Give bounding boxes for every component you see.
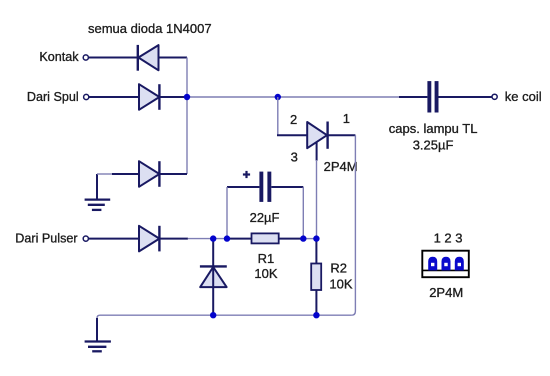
wire [159, 173, 187, 175]
connector pin 3 [455, 257, 464, 271]
capacitor C1 22uF [227, 172, 303, 202]
pin label 3 [291, 150, 298, 165]
svg-text:10K: 10K [329, 277, 352, 292]
wire: rail left corner down [97, 315, 100, 320]
svg-text:R1: R1 [258, 251, 275, 266]
label: Kontak [39, 50, 79, 64]
SCR U1 2P4M [307, 122, 327, 161]
wire [159, 96, 187, 98]
node junction dot [275, 94, 281, 100]
port terminal ke coil [492, 94, 497, 99]
capacitor C1 22uF polarity + [243, 171, 250, 178]
resistor R1 [227, 233, 303, 243]
node junction dot [224, 235, 230, 241]
label: Dari Pulser [15, 232, 77, 246]
diode D2 (pointing right) [139, 84, 159, 110]
label: R2 10K [329, 277, 352, 292]
wire [226, 187, 228, 239]
ground (bottom left) [85, 318, 111, 351]
svg-text:2P4M: 2P4M [324, 159, 358, 174]
wire [89, 57, 138, 59]
wire: cathode down to ground rail [351, 135, 355, 315]
pin label 2 [290, 112, 297, 127]
wire [159, 238, 188, 240]
label: R1 10K [254, 266, 277, 281]
port terminal Kontak [83, 55, 88, 60]
port terminal Dari Pulser [83, 236, 88, 241]
svg-text:ke coil: ke coil [505, 89, 542, 104]
resistor R2 [311, 239, 321, 316]
diode D5 (vertical, pointing up) [200, 239, 227, 316]
svg-text:22µF: 22µF [250, 210, 280, 225]
wire [89, 238, 139, 240]
port terminal Dari Spul [84, 94, 89, 99]
label: 22uF [250, 210, 280, 225]
capacitor C2 3.25uF [399, 81, 492, 112]
diode D4 (pointing right) [139, 226, 159, 252]
wire: vertical bus of diode outputs [186, 58, 188, 175]
svg-text:3.25µF: 3.25µF [413, 137, 454, 152]
connector pin 2 [442, 257, 451, 271]
node junction dot [184, 94, 190, 100]
node junction dot [313, 235, 319, 241]
wire: top rail to capacitor [187, 96, 399, 98]
svg-text:Kontak: Kontak [39, 50, 79, 64]
SCR anode drop wire [277, 97, 279, 135]
label: R2 [330, 261, 347, 276]
node junction dot [210, 312, 216, 318]
node junction dot [313, 312, 319, 318]
ground (middle left) [85, 174, 111, 210]
wire: SCR gate down [316, 160, 318, 239]
wire: SCR cathode to right [328, 134, 356, 136]
label: Dari Spul [27, 90, 79, 104]
connector package 2P4M (TO-220 outline) [422, 251, 469, 278]
svg-text:2: 2 [290, 112, 297, 127]
svg-text:2P4M: 2P4M [429, 285, 463, 300]
label: caps. lampu TL [389, 121, 478, 136]
wire [188, 238, 227, 240]
pin label 1 [343, 111, 350, 126]
connector pin 1 [428, 257, 437, 271]
wire [302, 187, 304, 239]
label: semua dioda 1N4007 [88, 21, 212, 36]
node junction dot [210, 235, 216, 241]
label: 3.25uF [413, 137, 454, 152]
svg-text:1 2 3: 1 2 3 [434, 230, 463, 245]
wire [112, 173, 139, 175]
svg-text:Dari Spul: Dari Spul [27, 90, 79, 104]
svg-text:3: 3 [291, 150, 298, 165]
wire [303, 238, 316, 240]
svg-text:1: 1 [343, 111, 350, 126]
wire [277, 134, 307, 136]
svg-text:10K: 10K [254, 266, 277, 281]
svg-text:semua dioda 1N4007: semua dioda 1N4007 [88, 21, 212, 36]
wire [89, 96, 139, 98]
label: ke coil [505, 89, 542, 104]
node junction dot [300, 235, 306, 241]
wire [159, 57, 188, 59]
diode D3 (pointing right) [139, 161, 159, 187]
label: 2P4M [324, 159, 358, 174]
wire [97, 173, 112, 175]
wire: bottom ground rail [100, 314, 351, 316]
label: connector pins 1 2 3 [434, 230, 463, 245]
label: 2P4M (connector) [429, 285, 463, 300]
svg-text:R2: R2 [330, 261, 347, 276]
label: R1 [258, 251, 275, 266]
svg-text:caps. lampu TL: caps. lampu TL [389, 121, 478, 136]
svg-text:Dari Pulser: Dari Pulser [15, 232, 77, 246]
diode D1 (pointing left) [138, 45, 159, 71]
